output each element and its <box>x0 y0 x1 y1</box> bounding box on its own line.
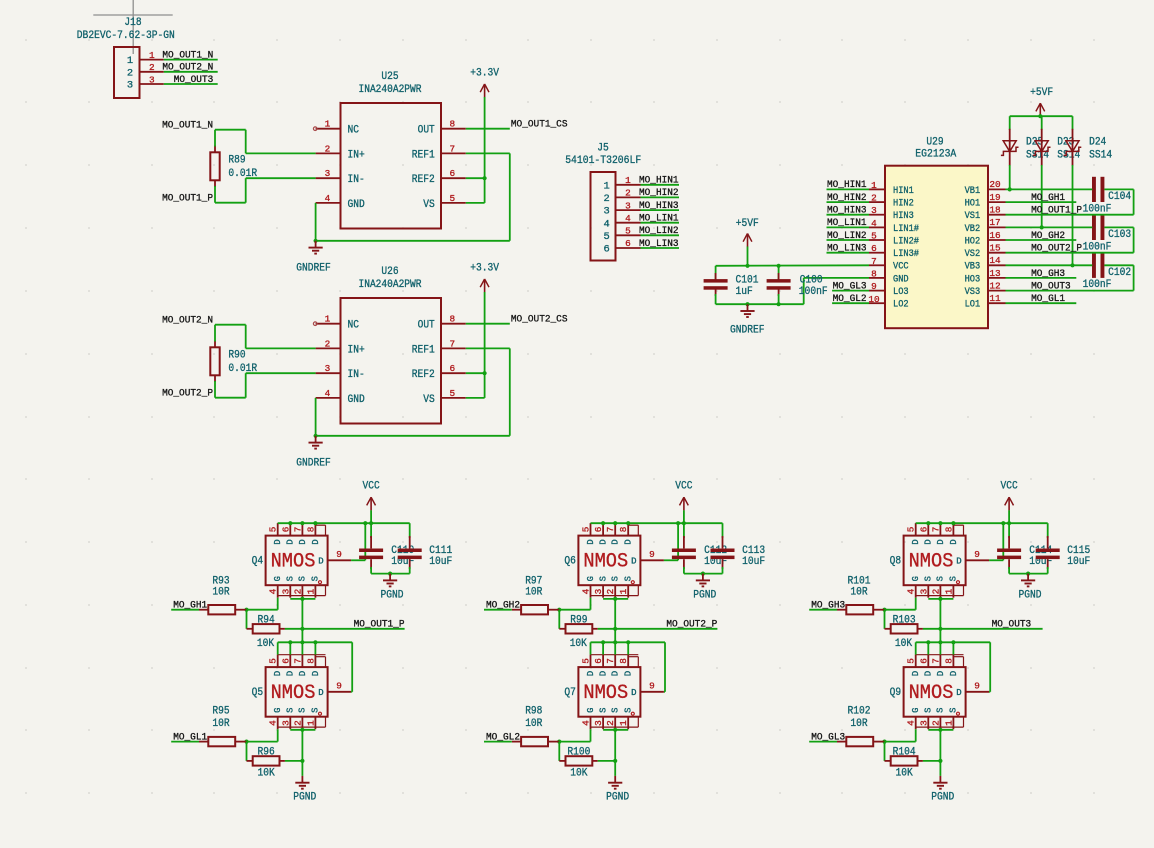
svg-text:MO_GL2: MO_GL2 <box>833 293 867 305</box>
svg-text:6: 6 <box>603 244 609 256</box>
pin 2 <box>316 338 341 349</box>
junction <box>483 371 487 375</box>
svg-text:2: 2 <box>605 720 616 726</box>
wire <box>466 397 485 399</box>
capacitor C100 <box>767 266 828 304</box>
svg-text:D: D <box>273 539 283 544</box>
transistor Q8 <box>890 523 990 598</box>
pin 8 <box>869 268 885 279</box>
svg-text:7: 7 <box>292 658 303 664</box>
wire <box>301 642 303 654</box>
svg-text:7: 7 <box>449 143 455 154</box>
wire <box>290 729 315 731</box>
svg-text:MO_HIN1: MO_HIN1 <box>827 179 867 191</box>
resistor R100 <box>559 747 597 780</box>
transistor Q6 <box>564 523 664 598</box>
svg-text:1: 1 <box>325 314 331 325</box>
junction <box>363 521 367 525</box>
svg-text:HO1: HO1 <box>965 198 981 209</box>
wire <box>641 234 680 236</box>
wire <box>1133 227 1135 252</box>
svg-text:U26: U26 <box>381 266 398 278</box>
svg-text:MO_GH3: MO_GH3 <box>1031 268 1065 280</box>
svg-text:MO_GL1: MO_GL1 <box>1031 293 1065 305</box>
wire <box>484 292 486 398</box>
svg-text:S: S <box>924 576 934 581</box>
svg-text:D: D <box>273 671 283 676</box>
pin 4 <box>316 193 341 204</box>
svg-text:Q7: Q7 <box>564 687 576 699</box>
svg-text:5: 5 <box>449 388 455 399</box>
wire <box>952 642 954 654</box>
svg-text:GNDREF: GNDREF <box>296 458 331 470</box>
junction <box>300 640 304 644</box>
svg-text:10K: 10K <box>570 768 588 780</box>
pin 15 <box>988 243 1006 254</box>
junction <box>313 640 317 644</box>
svg-text:PGND: PGND <box>381 590 404 602</box>
junction <box>745 302 749 306</box>
no-connect pin 1 <box>313 127 317 131</box>
svg-text:VS: VS <box>423 199 435 211</box>
svg-text:C115: C115 <box>1067 545 1090 557</box>
ground GNDREF <box>309 241 323 254</box>
resistor R97 <box>512 576 560 615</box>
wire <box>1041 165 1043 227</box>
svg-text:IN+: IN+ <box>348 149 365 161</box>
svg-text:LIN1#: LIN1# <box>893 223 919 234</box>
svg-text:4: 4 <box>268 720 279 726</box>
wire <box>827 226 870 228</box>
ground PGND <box>696 574 710 587</box>
svg-text:12: 12 <box>989 280 1000 291</box>
no-connect pin 1 <box>313 322 317 326</box>
wire <box>466 372 485 374</box>
svg-text:6: 6 <box>593 658 604 664</box>
svg-text:6: 6 <box>871 243 877 254</box>
wire <box>915 642 917 654</box>
wire <box>832 290 869 292</box>
pin 20 <box>988 179 1006 190</box>
wire <box>351 559 365 561</box>
wire <box>164 83 218 85</box>
svg-text:19: 19 <box>989 192 1000 203</box>
wire <box>289 642 291 654</box>
junction <box>951 521 955 525</box>
resistor R102 <box>837 706 885 747</box>
junction <box>1026 572 1030 576</box>
wire <box>215 202 246 204</box>
svg-text:MO_OUT1_P: MO_OUT1_P <box>1031 205 1082 217</box>
junction <box>613 521 617 525</box>
svg-text:17: 17 <box>989 217 1000 228</box>
svg-text:S: S <box>286 708 296 713</box>
pin 10 <box>868 294 885 305</box>
resistor R101 <box>837 576 885 615</box>
svg-text:9: 9 <box>974 681 980 692</box>
wire <box>290 598 315 600</box>
svg-text:1: 1 <box>618 720 629 726</box>
svg-text:PGND: PGND <box>1019 590 1042 602</box>
wire <box>316 240 510 242</box>
wire <box>93 0 172 54</box>
wire <box>916 522 1048 524</box>
svg-text:D24: D24 <box>1089 137 1107 149</box>
svg-text:D: D <box>624 539 634 544</box>
connector J18 <box>77 17 175 98</box>
wire <box>915 729 917 741</box>
svg-text:9: 9 <box>336 681 342 692</box>
svg-text:S: S <box>298 708 308 713</box>
wire <box>466 347 510 349</box>
wire <box>1008 510 1010 523</box>
wire <box>285 628 405 630</box>
resistor R98 <box>512 706 560 747</box>
svg-text:MO_OUT1_P: MO_OUT1_P <box>354 619 405 631</box>
svg-text:S: S <box>598 708 608 713</box>
svg-text:NC: NC <box>348 125 360 137</box>
svg-text:10K: 10K <box>258 768 276 780</box>
svg-text:REF1: REF1 <box>412 149 435 161</box>
svg-text:C102: C102 <box>1108 267 1131 279</box>
svg-text:D: D <box>611 539 621 544</box>
pin 12 <box>988 280 1006 291</box>
wire <box>559 609 590 611</box>
wire <box>214 325 216 342</box>
junction <box>244 740 248 744</box>
pin 17 <box>988 217 1006 228</box>
svg-text:4: 4 <box>581 588 592 594</box>
wire <box>466 177 485 179</box>
svg-text:8: 8 <box>871 268 877 279</box>
svg-text:2: 2 <box>625 188 631 199</box>
wire <box>1006 277 1077 279</box>
wire <box>171 741 199 743</box>
svg-text:G: G <box>586 576 596 581</box>
pin 8 <box>441 314 466 325</box>
pin 3 <box>316 168 341 179</box>
svg-text:D: D <box>949 539 959 544</box>
svg-text:MO_HIN2: MO_HIN2 <box>639 187 679 199</box>
svg-text:5: 5 <box>603 231 609 243</box>
capacitor C115 <box>1036 523 1091 573</box>
svg-text:2: 2 <box>292 589 303 595</box>
svg-text:+3.3V: +3.3V <box>470 68 499 80</box>
svg-text:D: D <box>956 688 961 698</box>
wire <box>1006 302 1077 304</box>
svg-text:VB1: VB1 <box>965 185 981 196</box>
svg-text:C100: C100 <box>800 275 823 287</box>
power +5VF <box>736 218 759 247</box>
junction <box>369 521 373 525</box>
wire <box>809 609 837 611</box>
svg-text:MO_HIN3: MO_HIN3 <box>639 200 679 212</box>
svg-text:REF2: REF2 <box>412 174 435 186</box>
svg-text:C104: C104 <box>1108 191 1131 203</box>
junction <box>745 264 749 268</box>
wire <box>603 729 628 731</box>
wire <box>1104 264 1133 266</box>
pin 6 <box>603 238 640 255</box>
svg-text:S: S <box>286 576 296 581</box>
junction <box>483 176 487 180</box>
svg-text:VS1: VS1 <box>965 210 981 221</box>
wire <box>591 522 723 524</box>
junction <box>288 521 292 525</box>
junction <box>613 640 617 644</box>
wire <box>215 324 246 326</box>
svg-text:MO_LIN2: MO_LIN2 <box>639 225 679 237</box>
connector J5 <box>565 143 641 261</box>
svg-text:VS2: VS2 <box>965 248 981 259</box>
svg-text:LO1: LO1 <box>965 299 981 310</box>
svg-text:100nF: 100nF <box>1083 279 1112 291</box>
ground GNDREF <box>309 436 323 449</box>
svg-text:IN+: IN+ <box>348 344 365 356</box>
svg-text:U29: U29 <box>926 137 943 149</box>
svg-text:7: 7 <box>605 658 616 664</box>
svg-text:VS: VS <box>423 394 435 406</box>
wire <box>1006 214 1134 216</box>
svg-text:9: 9 <box>649 681 655 692</box>
svg-text:6: 6 <box>918 526 929 532</box>
svg-text:G: G <box>911 708 921 713</box>
svg-text:MO_GL3: MO_GL3 <box>811 731 845 743</box>
wire <box>664 642 666 692</box>
svg-text:HIN3: HIN3 <box>893 210 914 221</box>
wire <box>1006 290 1134 292</box>
svg-text:R100: R100 <box>567 747 590 759</box>
pin 4 <box>869 218 885 229</box>
svg-text:2: 2 <box>871 193 877 204</box>
wire <box>509 153 511 240</box>
svg-text:GND: GND <box>348 199 366 211</box>
svg-text:100nF: 100nF <box>1083 203 1112 215</box>
wire <box>664 691 665 693</box>
svg-text:D: D <box>586 671 596 676</box>
svg-text:6: 6 <box>918 658 929 664</box>
svg-text:5: 5 <box>268 658 279 664</box>
pin 4 <box>316 388 341 399</box>
power +3.3V <box>470 263 499 293</box>
transistor Q7 <box>564 655 664 730</box>
svg-text:100nF: 100nF <box>799 286 828 298</box>
svg-text:7: 7 <box>871 256 877 267</box>
wire <box>684 573 723 575</box>
svg-text:4: 4 <box>268 588 279 594</box>
junction <box>288 640 292 644</box>
svg-text:LIN3#: LIN3# <box>893 248 919 259</box>
wire <box>559 741 590 743</box>
svg-text:D: D <box>298 671 308 676</box>
wire <box>939 730 941 776</box>
svg-text:D: D <box>924 671 934 676</box>
svg-text:3: 3 <box>280 720 291 726</box>
wire <box>884 742 886 761</box>
svg-text:R99: R99 <box>570 614 587 626</box>
junction <box>244 608 248 612</box>
junction <box>557 608 561 612</box>
svg-text:10uF: 10uF <box>1067 556 1090 568</box>
power VCC <box>675 481 692 511</box>
junction <box>676 521 680 525</box>
transistor Q5 <box>252 655 352 730</box>
svg-text:3: 3 <box>280 588 291 594</box>
svg-text:D: D <box>586 539 596 544</box>
wire <box>1002 523 1004 560</box>
pin 2 <box>603 188 640 205</box>
pin 8 <box>441 119 466 130</box>
wire <box>803 278 805 304</box>
svg-text:D25: D25 <box>1026 137 1043 149</box>
svg-text:R90: R90 <box>228 349 245 361</box>
pin 1 <box>316 119 341 130</box>
capacitor C101 <box>704 266 759 304</box>
resistor R94 <box>247 614 285 650</box>
junction <box>926 521 930 525</box>
junction <box>557 740 561 744</box>
svg-text:MO_LIN1: MO_LIN1 <box>639 213 679 225</box>
svg-text:LO3: LO3 <box>893 286 909 297</box>
ground PGND <box>1021 574 1035 587</box>
svg-text:G: G <box>911 576 921 581</box>
pin 1 <box>127 50 164 67</box>
junction <box>626 640 630 644</box>
wire <box>1039 115 1041 117</box>
svg-text:10K: 10K <box>895 638 913 650</box>
wire <box>747 247 749 266</box>
svg-text:D: D <box>911 539 921 544</box>
wire <box>928 598 953 600</box>
wire <box>923 628 1043 630</box>
wire <box>164 71 218 73</box>
wire <box>509 348 511 435</box>
junction <box>613 759 617 763</box>
resistor R103 <box>885 614 923 650</box>
svg-text:6: 6 <box>449 168 455 179</box>
pin 14 <box>988 255 1006 266</box>
junction <box>938 759 942 763</box>
wire <box>915 598 917 610</box>
op-amp U26 <box>341 266 442 423</box>
wire <box>466 128 510 130</box>
svg-text:1: 1 <box>149 50 155 61</box>
wire <box>590 642 592 654</box>
svg-text:16: 16 <box>989 230 1001 241</box>
svg-text:3: 3 <box>325 168 331 179</box>
svg-text:MO_OUT3: MO_OUT3 <box>174 74 214 86</box>
junction <box>1070 263 1074 267</box>
svg-text:REF1: REF1 <box>412 344 435 356</box>
svg-text:C101: C101 <box>736 275 759 287</box>
svg-text:VB2: VB2 <box>965 223 981 234</box>
svg-text:2: 2 <box>603 193 609 205</box>
junction <box>777 302 781 306</box>
junction <box>300 521 304 525</box>
wire <box>364 523 366 560</box>
svg-text:5: 5 <box>625 226 631 237</box>
svg-text:HIN1: HIN1 <box>893 185 914 196</box>
resistor R104 <box>885 747 923 780</box>
svg-text:D: D <box>631 557 636 567</box>
wire <box>314 642 316 654</box>
svg-text:MO_HIN1: MO_HIN1 <box>639 175 679 187</box>
svg-text:+3.3V: +3.3V <box>470 263 499 275</box>
svg-text:9: 9 <box>974 549 980 560</box>
pin 7 <box>441 338 466 349</box>
svg-text:NMOS: NMOS <box>271 550 316 573</box>
wire <box>246 347 316 349</box>
svg-text:EG2123A: EG2123A <box>915 149 956 161</box>
svg-text:2: 2 <box>292 720 303 726</box>
wire <box>558 742 560 761</box>
wire <box>827 201 870 203</box>
wire <box>641 184 680 186</box>
pin 5 <box>603 226 640 243</box>
wire <box>245 130 247 154</box>
svg-text:D: D <box>631 688 636 698</box>
pin 3 <box>316 363 341 374</box>
wire <box>1010 115 1073 117</box>
svg-text:MO_OUT1_P: MO_OUT1_P <box>162 193 213 205</box>
svg-text:VCC: VCC <box>363 481 380 493</box>
ground PGND <box>933 776 947 789</box>
wire <box>989 559 1003 561</box>
capacitor C110 <box>359 523 414 573</box>
svg-text:HO3: HO3 <box>965 273 981 284</box>
junction <box>938 597 942 601</box>
junction <box>314 239 318 243</box>
svg-text:5: 5 <box>581 526 592 532</box>
svg-text:8: 8 <box>449 314 455 325</box>
svg-text:MO_OUT2_P: MO_OUT2_P <box>666 619 717 631</box>
wire <box>315 203 317 241</box>
svg-text:GND: GND <box>348 394 366 406</box>
svg-text:NMOS: NMOS <box>909 550 954 573</box>
junction <box>300 728 304 732</box>
svg-text:4: 4 <box>603 218 609 230</box>
wire <box>1009 573 1048 575</box>
wire <box>246 177 316 179</box>
svg-text:MO_GH3: MO_GH3 <box>811 600 845 612</box>
wire <box>923 760 941 762</box>
junction <box>388 572 392 576</box>
wire <box>277 598 279 610</box>
svg-text:7: 7 <box>449 338 455 349</box>
junction <box>300 759 304 763</box>
svg-text:100nF: 100nF <box>1083 241 1112 253</box>
wire <box>215 129 246 131</box>
svg-text:4: 4 <box>871 218 877 229</box>
ground PGND <box>295 776 309 789</box>
svg-text:4: 4 <box>325 193 331 204</box>
resistor R96 <box>247 747 285 780</box>
wire <box>214 381 216 398</box>
svg-text:20: 20 <box>989 179 1001 190</box>
svg-text:10R: 10R <box>850 586 868 598</box>
svg-text:MO_GH2: MO_GH2 <box>486 600 520 612</box>
wire <box>466 152 510 154</box>
svg-text:10R: 10R <box>525 718 543 730</box>
svg-text:6: 6 <box>280 526 291 532</box>
wire <box>301 598 303 643</box>
wire <box>171 609 199 611</box>
svg-text:MO_OUT3: MO_OUT3 <box>1031 280 1071 292</box>
IC U29 <box>885 137 988 329</box>
capacitor C103 <box>1083 215 1132 254</box>
junction <box>777 264 781 268</box>
svg-text:J18: J18 <box>124 17 141 29</box>
